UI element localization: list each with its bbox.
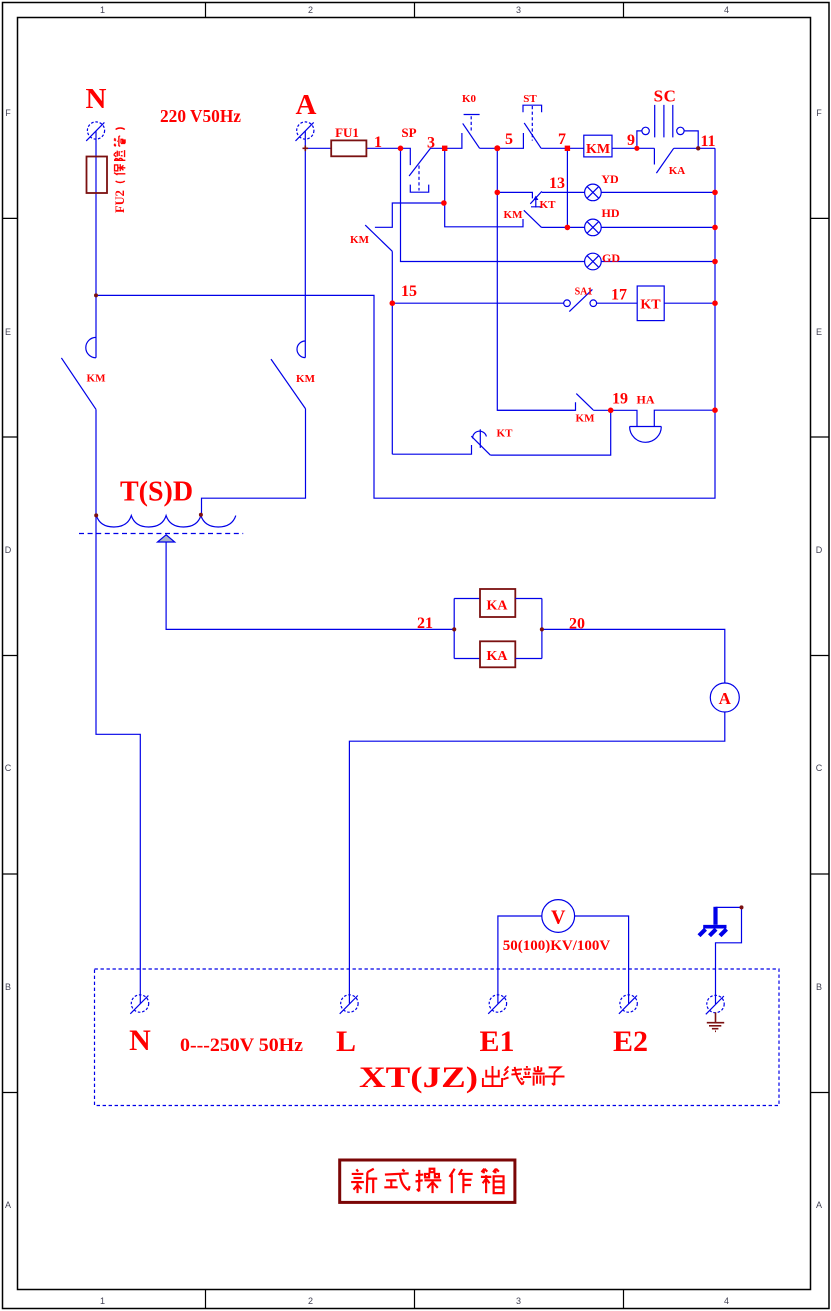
column tick marks top [206,3,624,18]
transformer right tap junction [199,513,203,517]
svg-text:3: 3 [427,135,435,152]
terminal block dashed outline [95,969,780,1106]
rail YD junction [712,190,718,196]
contact KM aux (to 15) blade [365,225,392,251]
svg-text:A: A [296,89,317,121]
svg-text:E2: E2 [613,1025,648,1058]
contact KT (delayed) blade at 13 [530,191,542,203]
svg-text:4: 4 [724,5,729,15]
svg-text:KT: KT [497,428,514,440]
voltmeter left lead to E1 [498,916,542,1004]
svg-text:KA: KA [669,165,686,177]
wire KT coil to rail [664,302,715,304]
node 3a junction [441,200,447,206]
svg-text:20: 20 [569,616,585,633]
plug SC prongs [655,105,673,137]
svg-text:E: E [816,327,822,337]
node 11 junction [696,146,700,150]
plug SC left circle [642,127,649,134]
button K0 dashed stem [470,116,472,130]
wire K0 to node5 [480,133,524,148]
plug SC right branch [684,131,698,148]
alarm branch: KM contact lead [497,409,575,411]
wire ammeter to L terminal [349,712,724,1004]
wire A to transformer tap [202,409,306,515]
wire to HD lamp [542,226,585,228]
svg-text:C: C [5,763,12,773]
svg-text:3: 3 [516,1296,521,1306]
svg-text:21: 21 [417,615,433,632]
voltmeter right lead to E2 [575,916,629,1004]
relay KA parallel block left bracket [454,599,480,659]
node 9 junction [634,146,639,151]
contact KT delayed arc [473,431,487,438]
wiper wire down to 21 [166,542,454,629]
relay KA coil box 2 [480,641,515,667]
node 1 junction [398,146,404,152]
svg-text:1: 1 [100,5,105,15]
wire N vertical upper [95,131,97,358]
contactor main contact KM right: blade [271,359,306,409]
svg-text:T(S)D: T(S)D [120,477,193,508]
node 20 junction [540,627,544,631]
svg-text:GD: GD [602,251,620,265]
button K0 crossbar [464,114,480,116]
ammeter A [710,683,739,712]
svg-text:50(100)KV/100V: 50(100)KV/100V [503,938,611,954]
voltmeter V [542,900,575,933]
terminal E1 bottom [489,995,506,1012]
HD row from node3 [445,203,523,227]
transformer wiper triangle [158,535,175,542]
fuse FU1 body [331,140,366,156]
button ST blade [524,123,541,148]
node 5 junction [494,145,500,151]
svg-text:0---250V 50Hz: 0---250V 50Hz [180,1035,304,1056]
svg-text:KT: KT [640,298,661,313]
switch SA1 circles [564,300,571,307]
relay KA block right bracket [515,599,542,659]
svg-text:7: 7 [558,131,566,148]
fuse FU2 body [87,157,108,194]
rail HD junction [712,225,718,231]
node 3 junction [442,146,447,151]
terminal L bottom [341,995,358,1012]
wire A vertical upper [304,131,306,358]
svg-text:SA1: SA1 [575,287,593,298]
plug SC left branch [637,131,642,148]
svg-text:KM: KM [296,373,316,385]
svg-text:17: 17 [611,287,627,304]
svg-text:FU2: FU2 [113,190,127,213]
contact KA blade [656,148,673,173]
wire 20 to ammeter [542,629,725,683]
svg-text:A: A [5,1200,11,1210]
svg-text:3: 3 [516,5,521,15]
wire line 15 [392,302,563,304]
wire HD to rail [601,226,715,228]
title 新式操作箱 custom glyphs [351,1169,503,1193]
svg-text:5: 5 [505,131,513,148]
svg-text:9: 9 [627,132,635,149]
contactor main contact KM left: blade [61,358,96,410]
svg-text:ST: ST [523,93,537,105]
svg-text:A: A [719,689,732,708]
wire N vertical lower [96,410,140,1004]
svg-text:FU1: FU1 [335,125,359,140]
svg-text:F: F [5,108,11,118]
coil KT box [637,286,664,321]
node A junction [303,146,309,152]
terminal PE bottom [707,995,724,1012]
HD row junction [565,225,571,231]
svg-text:K0: K0 [462,93,477,105]
svg-text:KT: KT [540,199,557,211]
lamp YD [585,184,602,201]
svg-text:N: N [86,83,107,115]
contact KT delay marker [531,198,541,208]
svg-text:KM: KM [350,234,370,246]
ground wire junction [740,905,744,909]
svg-text:A: A [816,1200,822,1210]
button K0 blade [463,123,480,148]
wire 17 [597,302,638,304]
transformer left tap junction [94,513,98,517]
svg-text:XT(JZ): XT(JZ) [359,1061,478,1094]
node 1 branch down to GD row [401,148,585,261]
terminal N (circle with slash) [87,122,104,139]
svg-text:N: N [129,1024,151,1057]
svg-text:E1: E1 [479,1025,514,1058]
wire ST to node7 [541,147,584,149]
svg-text:D: D [5,545,12,555]
svg-text:15: 15 [401,283,417,300]
switch SA1 blade [569,289,592,311]
svg-text:YD: YD [601,172,619,186]
svg-text:11: 11 [700,133,715,150]
svg-text:KA: KA [487,599,509,614]
svg-text:E: E [5,327,11,337]
svg-text:SP: SP [401,125,416,140]
chassis ground symbol (thick) [699,907,727,936]
rail KT junction [712,300,718,306]
wire node11 to rail [674,147,715,149]
row tick marks right [811,218,829,1092]
wire GD to rail [601,261,715,263]
bell HA dome [630,427,662,443]
label 出线端子 custom glyphs [483,1066,565,1086]
switch SP actuator dashed stem [418,166,420,191]
contact KM aux (HD) blade [524,210,542,227]
svg-text:1: 1 [100,1296,105,1306]
label FU2（保险管） vertical [113,128,127,213]
wire YD to rail [601,191,715,193]
transformer dashed core line [79,533,243,535]
wire main control line [305,148,410,165]
svg-text:L: L [336,1025,356,1058]
svg-text:F: F [816,108,822,118]
svg-text:HA: HA [637,393,655,407]
terminal E2 bottom [620,995,637,1012]
node3 branch down [375,148,445,227]
svg-text:1: 1 [374,134,382,151]
svg-text:220 V50Hz: 220 V50Hz [160,106,241,126]
node 15 junction [390,300,396,306]
svg-text:SC: SC [654,87,677,106]
node N junction [94,293,98,297]
wire node1 to K0 [431,133,462,148]
wire 13 to YD lamp [542,191,585,193]
row tick marks left [3,218,18,1092]
button ST head bracket [523,105,542,112]
svg-text:13: 13 [549,175,565,192]
transformer winding T(S)D [96,516,235,527]
earth ground symbol under PE terminal (dark red) [707,1012,724,1031]
svg-text:C: C [816,763,823,773]
node N-branch junction [96,148,715,498]
wire KM aux to node15 [391,251,393,454]
svg-text:KA: KA [487,649,509,664]
relay KA coil box 1 [480,589,515,617]
node 7 junction [565,146,570,151]
rail HA junction [712,407,718,413]
lamp GD [585,253,602,270]
contact KT delayed tail [479,429,481,448]
lamp HD [585,219,602,236]
svg-text:V: V [551,907,566,929]
bell HA right lead [654,410,715,426]
chassis ground symbol wire [716,907,742,1004]
contact KA stub [653,148,655,164]
contactor main contact KM right: arc [297,341,305,358]
wire KM coil to node9 [612,147,654,149]
terminal N bottom [131,995,148,1012]
contact KT delayed (alarm) lead left [392,445,471,454]
wire KT delayed to node19 [490,410,610,455]
coil KM box [584,135,612,157]
contact KM (19) blade [576,394,593,410]
svg-text:B: B [5,982,11,992]
node7 vertical to HD row [566,148,568,227]
svg-text:19: 19 [612,391,628,408]
svg-text:KM: KM [586,142,610,157]
node5 vertical branch [497,148,575,410]
node 21 junction [452,627,456,631]
svg-text:D: D [816,545,823,555]
switch SP blade [409,148,431,176]
title box [340,1160,515,1202]
svg-text:2: 2 [308,1296,313,1306]
button ST dashed stem [531,106,533,141]
contactor main contact KM left: arc [86,337,96,357]
wire to node19 [593,410,637,426]
svg-text:HD: HD [602,206,620,220]
column tick marks bottom [206,1290,624,1309]
svg-text:B: B [816,982,822,992]
terminal A (circle with slash) [297,122,314,139]
rail GD junction [712,259,718,265]
svg-text:KM: KM [504,209,524,221]
svg-text:KM: KM [576,413,596,425]
svg-text:2: 2 [308,5,313,15]
node 19 junction [608,408,614,414]
switch SP actuator bracket [410,185,428,193]
contact KT delayed blade [471,436,490,455]
plug SC right circle [677,127,684,134]
svg-text:4: 4 [724,1296,729,1306]
node 13 junction [495,190,501,196]
YD row: node5 tap to KT contact [497,192,532,198]
svg-text:KM: KM [87,373,107,385]
